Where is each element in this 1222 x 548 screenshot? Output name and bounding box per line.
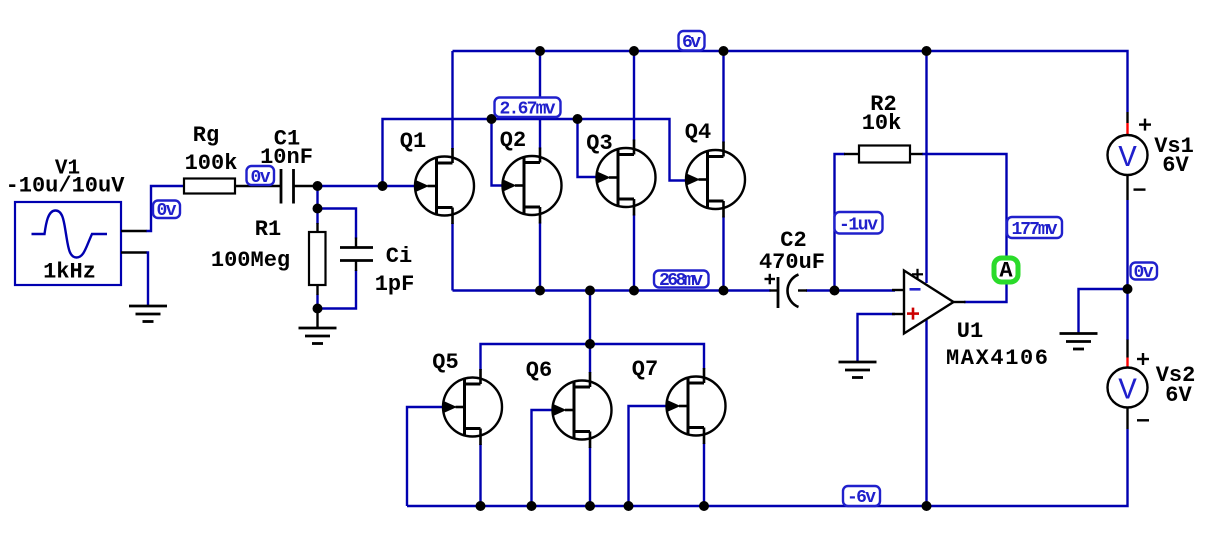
svg-text:177mv: 177mv: [1012, 220, 1058, 240]
svg-text:A: A: [999, 259, 1013, 284]
svg-text:Q5: Q5: [432, 350, 458, 375]
svg-text:Q4: Q4: [685, 120, 711, 145]
svg-text:10nF: 10nF: [260, 145, 313, 170]
svg-text:1kHz: 1kHz: [43, 260, 96, 285]
svg-text:-1uv: -1uv: [839, 216, 878, 236]
svg-text:6V: 6V: [1162, 153, 1189, 178]
svg-text:0v: 0v: [157, 201, 177, 221]
svg-text:Q2: Q2: [500, 128, 526, 153]
svg-text:6v: 6v: [682, 33, 701, 53]
svg-text:Q6: Q6: [526, 358, 552, 383]
svg-text:268mv: 268mv: [659, 271, 703, 291]
svg-text:Ci: Ci: [386, 244, 412, 269]
svg-text:0v: 0v: [1134, 263, 1154, 283]
svg-text:R1: R1: [255, 217, 281, 242]
svg-text:MAX4106: MAX4106: [946, 346, 1048, 371]
svg-text:Q1: Q1: [400, 129, 426, 154]
svg-text:10k: 10k: [862, 111, 902, 136]
svg-text:-6v: -6v: [847, 488, 876, 508]
svg-text:Q3: Q3: [586, 131, 612, 156]
svg-text:V: V: [1118, 141, 1137, 176]
svg-text:Rg: Rg: [193, 123, 219, 148]
svg-text:470uF: 470uF: [759, 250, 825, 275]
svg-text:1pF: 1pF: [375, 272, 415, 297]
svg-text:V: V: [1118, 374, 1137, 409]
svg-text:6V: 6V: [1165, 383, 1192, 408]
svg-text:0v: 0v: [251, 168, 271, 188]
svg-text:-10u/10uV: -10u/10uV: [6, 174, 126, 199]
svg-text:2.67mv: 2.67mv: [500, 100, 556, 120]
svg-text:Q7: Q7: [632, 357, 658, 382]
svg-text:100Meg: 100Meg: [211, 248, 290, 273]
svg-text:U1: U1: [957, 319, 983, 344]
svg-text:100k: 100k: [185, 151, 238, 176]
